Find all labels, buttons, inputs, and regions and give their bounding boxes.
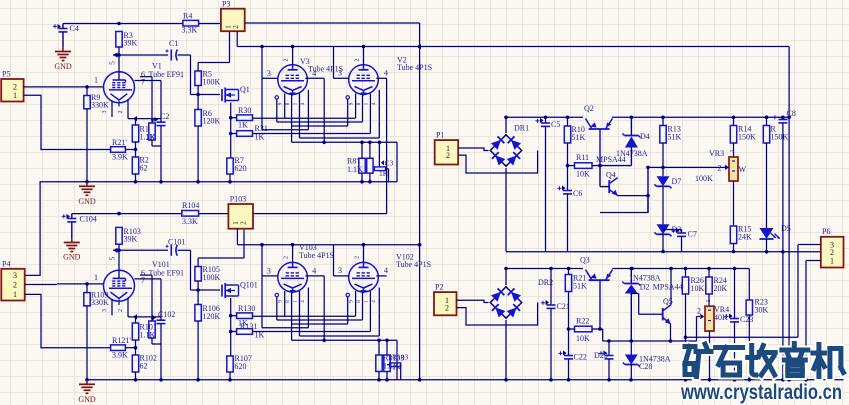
capacitor D23: [594, 339, 614, 380]
svg-text:C104: C104: [80, 215, 97, 224]
connector P3: [221, 0, 245, 31]
svg-text:C7: C7: [688, 230, 697, 239]
resistor R6: [195, 95, 221, 182]
wire screen rail bottom: [237, 229, 421, 247]
svg-text:5: 5: [109, 256, 117, 260]
svg-text:620: 620: [235, 362, 247, 371]
pot VR3: [695, 149, 747, 226]
svg-text:62: 62: [140, 362, 148, 371]
svg-text:9: 9: [349, 300, 355, 303]
resistor R101: [132, 317, 157, 348]
svg-text:4: 4: [384, 266, 388, 275]
svg-text:51K: 51K: [573, 282, 587, 291]
wire B+ bottom channel: [72, 212, 229, 216]
svg-text:3.9K: 3.9K: [112, 351, 128, 360]
svg-text:VR3: VR3: [709, 149, 724, 158]
capacitor C7: [663, 228, 697, 252]
capacitor C5: [536, 117, 561, 251]
svg-text:C4: C4: [70, 24, 79, 33]
capacitor C4: [53, 24, 79, 48]
svg-text:5: 5: [109, 61, 117, 65]
svg-text:Q2: Q2: [584, 104, 594, 113]
wire rail end bottom: [396, 340, 398, 380]
svg-text:R11: R11: [576, 153, 589, 162]
svg-text:C21: C21: [557, 302, 570, 311]
diode C28 zener: [623, 341, 671, 380]
svg-text:1K: 1K: [379, 169, 389, 178]
svg-text:Tube 4P1S: Tube 4P1S: [397, 63, 432, 72]
svg-text:DR1: DR1: [514, 124, 529, 133]
pot 2K and cap C2: [146, 112, 169, 182]
svg-text:1: 1: [730, 150, 736, 153]
resistor R130: [231, 304, 256, 328]
svg-text:9: 9: [349, 102, 355, 105]
svg-text:4: 4: [371, 300, 377, 303]
connector P1: [435, 131, 459, 165]
bridge DR2: [489, 269, 553, 380]
wire P6 pin1: [806, 261, 821, 380]
capacitor C23: [725, 269, 754, 380]
svg-text:R21': R21': [112, 138, 127, 147]
tube V101: [104, 250, 185, 301]
resistor R105: [195, 229, 244, 290]
svg-text:C8: C8: [787, 109, 796, 118]
svg-text:10K: 10K: [691, 284, 705, 293]
svg-text:R4: R4: [183, 12, 192, 21]
svg-text:P3: P3: [222, 0, 230, 9]
resistor R7: [227, 156, 247, 182]
svg-text:51K: 51K: [668, 133, 682, 142]
svg-text:20K: 20K: [714, 284, 728, 293]
resistor R22: [567, 317, 603, 344]
transistor Q4: [596, 155, 650, 213]
wire channel rail: [25, 180, 397, 275]
connector P103: [228, 195, 253, 229]
resistor R2: [132, 150, 149, 182]
svg-text:120K: 120K: [203, 312, 221, 321]
capacitor C1: [166, 39, 179, 61]
resistor R30: [231, 106, 253, 130]
svg-text:R104: R104: [182, 201, 199, 210]
svg-text:P5: P5: [2, 70, 10, 79]
svg-text:62: 62: [140, 164, 148, 173]
svg-text:1: 1: [293, 300, 299, 303]
wire R103 node: [109, 244, 169, 260]
resistor R121': [111, 336, 138, 360]
wire B+ top right: [420, 47, 791, 380]
svg-text:100K: 100K: [203, 78, 221, 87]
capacitor C8: [773, 109, 796, 380]
svg-text:3: 3: [338, 69, 342, 78]
capacitor C6: [558, 166, 583, 252]
svg-text:2: 2: [445, 303, 449, 312]
tube V3: [267, 47, 343, 96]
svg-text:8: 8: [356, 102, 362, 105]
tube V102 pins: [334, 245, 387, 336]
svg-text:150K: 150K: [738, 133, 756, 142]
svg-text:W: W: [739, 165, 747, 174]
svg-text:C22: C22: [574, 353, 587, 362]
svg-text:Tube 4P1S: Tube 4P1S: [396, 260, 431, 269]
svg-text:MPSA44: MPSA44: [653, 283, 683, 292]
resistor R3: [116, 31, 138, 48]
resistor R103: [116, 227, 141, 244]
wire rail end: [396, 142, 398, 182]
svg-text:51K: 51K: [572, 133, 586, 142]
svg-text:R30: R30: [238, 106, 251, 115]
capacitor C3: [374, 141, 393, 182]
svg-text:24K: 24K: [738, 233, 752, 242]
svg-text:2: 2: [446, 151, 450, 160]
svg-text:4: 4: [300, 300, 306, 303]
watermark CJK: [685, 344, 843, 377]
svg-text:R22: R22: [576, 317, 589, 326]
svg-text:R130: R130: [238, 304, 255, 313]
resistor R106: [195, 290, 221, 380]
svg-text:www.crystalradio.cn: www.crystalradio.cn: [680, 381, 842, 404]
resistor R15: [730, 225, 752, 254]
resistor R23: [746, 269, 768, 380]
svg-text:3: 3: [102, 309, 108, 312]
resistor R1: [132, 119, 155, 150]
ground: [78, 182, 96, 206]
svg-text:330K: 330K: [91, 101, 109, 110]
svg-text:3.3K: 3.3K: [182, 26, 198, 35]
svg-text:40K: 40K: [714, 313, 728, 322]
svg-text:1K: 1K: [238, 121, 248, 130]
diode D4 zener: [592, 116, 650, 166]
resistor R13: [660, 117, 682, 176]
wire Q1 drain chain: [229, 103, 233, 159]
svg-text:Tube EF91: Tube EF91: [149, 269, 185, 278]
wire P2 to bridge: [457, 300, 538, 325]
transistor Q2: [584, 104, 613, 166]
svg-text:1: 1: [830, 256, 834, 265]
resistor R8': [347, 142, 373, 182]
wire cathode bus: [253, 78, 398, 144]
resistor R11: [566, 153, 602, 179]
capacitor C104: [62, 214, 97, 238]
svg-text:P2: P2: [435, 283, 443, 292]
svg-text:7: 7: [141, 276, 145, 285]
ground: [63, 238, 81, 262]
svg-text:2: 2: [240, 221, 248, 225]
tube V3 pins: [262, 47, 324, 143]
resistor R10: [564, 117, 585, 165]
wire P1 to bridge: [458, 148, 537, 173]
transistor Q3: [580, 256, 613, 330]
resistor R8103: [376, 340, 405, 380]
wire P3 right B+ loop: [245, 23, 422, 380]
svg-text:C1: C1: [169, 39, 178, 48]
svg-text:C28: C28: [639, 362, 652, 371]
svg-text:Tube 4P1S: Tube 4P1S: [299, 251, 334, 260]
capacitor C21: [541, 269, 570, 380]
svg-text:2: 2: [697, 307, 701, 316]
watermark url: [680, 381, 842, 404]
svg-text:C3: C3: [385, 159, 394, 168]
svg-text:D4: D4: [640, 132, 650, 141]
svg-text:100K: 100K: [203, 273, 221, 282]
svg-text:Tube EF91: Tube EF91: [149, 70, 185, 79]
svg-text:8: 8: [285, 102, 291, 105]
tube V2: [338, 47, 432, 96]
capacitor C101: [166, 238, 186, 256]
wire Q101 drain chain: [229, 298, 233, 356]
svg-text:39K: 39K: [124, 39, 138, 48]
svg-text:P1: P1: [436, 131, 444, 140]
svg-text:9: 9: [278, 102, 284, 105]
svg-text:Q3: Q3: [580, 256, 590, 265]
svg-text:2: 2: [232, 25, 240, 29]
wire to P6 pin2: [766, 251, 768, 253]
svg-text:4: 4: [300, 102, 306, 105]
svg-text:R103: R103: [392, 353, 409, 362]
svg-text:D7: D7: [672, 177, 682, 186]
resistor R131: [231, 322, 265, 340]
wire C1 to R5 node: [178, 55, 221, 96]
pot VR4: [705, 300, 729, 380]
svg-text:3: 3: [267, 267, 271, 276]
svg-text:Q101: Q101: [240, 281, 258, 290]
svg-text:9: 9: [278, 300, 284, 303]
tube V2 pins: [334, 47, 387, 214]
svg-text:C101: C101: [168, 238, 185, 247]
svg-text:P103: P103: [230, 195, 246, 204]
wire lower adj: [603, 307, 705, 342]
wire supply minus rail: [506, 251, 821, 253]
svg-text:10K: 10K: [576, 170, 590, 179]
wire screen rail: [237, 31, 421, 49]
wire cathode bus bottom: [253, 276, 398, 342]
diode D5 LED: [760, 224, 791, 254]
wire bottom rail: [85, 378, 843, 382]
svg-text:R121': R121': [112, 336, 131, 345]
bridge DR1: [489, 117, 529, 251]
svg-text:3.3K: 3.3K: [182, 217, 198, 226]
tube V101 pins: [102, 275, 161, 319]
transistor Q101: [222, 281, 258, 299]
diode D3 zener: [655, 224, 682, 253]
svg-text:1: 1: [364, 102, 370, 105]
tube V1: [104, 55, 185, 103]
svg-text:8: 8: [356, 300, 362, 303]
wire P4 pin1 path: [25, 294, 111, 347]
resistor R26: [682, 269, 704, 380]
resistor R103b: [387, 353, 409, 380]
connector P2: [434, 283, 457, 316]
svg-text:GND: GND: [78, 197, 96, 206]
svg-text:30K: 30K: [755, 306, 769, 315]
svg-text:3: 3: [13, 271, 17, 280]
tube V103: [267, 243, 334, 293]
svg-text:3: 3: [267, 69, 271, 78]
svg-text:1: 1: [13, 91, 17, 100]
connector P4: [1, 260, 24, 301]
wire P5 pin1 path: [24, 95, 111, 149]
svg-text:3: 3: [338, 266, 342, 275]
tube V1 pins: [102, 77, 161, 122]
svg-text:330K: 330K: [91, 298, 109, 307]
svg-text:Q4: Q4: [606, 171, 616, 180]
svg-text:2: 2: [118, 309, 124, 312]
svg-text:4: 4: [384, 69, 388, 78]
svg-text:150K: 150K: [771, 133, 789, 142]
resistor R16: [763, 117, 788, 228]
pot 2K and cap C102: [149, 310, 176, 380]
svg-text:2: 2: [284, 59, 290, 62]
resistor R21': [111, 138, 138, 162]
svg-text:2: 2: [118, 111, 124, 114]
wire supply lower rail: [504, 267, 749, 271]
svg-text:GND: GND: [78, 395, 96, 404]
svg-text:1.1K: 1.1K: [347, 165, 363, 174]
resistor R31: [231, 124, 268, 142]
svg-text:3.9K: 3.9K: [112, 153, 128, 162]
svg-text:1: 1: [94, 76, 98, 85]
tube V103 pins: [262, 245, 324, 341]
capacitor C22: [559, 329, 587, 380]
svg-text:1: 1: [293, 102, 299, 105]
svg-text:C6: C6: [573, 189, 582, 198]
wire P6 pin3: [684, 245, 821, 340]
transistor Q5: [663, 267, 673, 343]
wire P4 pin2 to grid: [25, 273, 104, 286]
svg-text:100K: 100K: [695, 174, 713, 183]
wire C101 to R105 node: [178, 250, 221, 292]
ground: [54, 47, 72, 71]
svg-text:C5: C5: [551, 120, 560, 129]
svg-text:2: 2: [355, 59, 361, 62]
svg-text:620: 620: [235, 164, 247, 173]
svg-text:1: 1: [94, 273, 98, 282]
wire P5 pin2 to grid: [24, 76, 104, 89]
svg-text:39K: 39K: [124, 235, 138, 244]
resistor R21: [565, 269, 587, 330]
svg-text:4: 4: [312, 267, 316, 276]
svg-text:3: 3: [102, 111, 108, 114]
resistor R104: [182, 201, 200, 226]
wire vr3 wiper feed: [648, 166, 722, 170]
tube V102: [338, 245, 431, 294]
svg-text:GND: GND: [54, 62, 72, 71]
svg-text:4: 4: [371, 102, 377, 105]
svg-text:4: 4: [312, 69, 316, 78]
svg-text:Q1: Q1: [240, 85, 250, 94]
svg-text:10K: 10K: [576, 334, 590, 343]
svg-text:120K: 120K: [203, 117, 221, 126]
svg-text:P4: P4: [2, 260, 10, 269]
svg-text:MPSA44: MPSA44: [596, 155, 626, 164]
svg-text:2: 2: [355, 256, 361, 259]
svg-text:8: 8: [285, 300, 291, 303]
svg-text:7: 7: [141, 78, 145, 87]
svg-text:D2: D2: [640, 283, 650, 292]
svg-text:GND: GND: [63, 253, 81, 262]
resistor R109: [84, 284, 109, 380]
resistor R4: [182, 12, 199, 35]
svg-text:C23: C23: [740, 315, 753, 324]
svg-text:2: 2: [718, 164, 722, 173]
resistor R5: [195, 31, 230, 94]
transistor Q1: [222, 85, 250, 103]
node anode V1: [109, 52, 169, 64]
resistor R107: [227, 354, 252, 380]
diode D7 zener: [655, 176, 682, 224]
svg-text:2: 2: [284, 256, 290, 259]
connector P5: [1, 70, 23, 102]
svg-text:2K: 2K: [146, 133, 156, 142]
wire R3 to node: [117, 47, 121, 57]
resistor R102: [132, 348, 157, 380]
svg-text:2: 2: [13, 280, 17, 289]
wire supply top rail: [504, 116, 789, 120]
svg-text:P6: P6: [822, 227, 830, 236]
resistor R24: [706, 269, 728, 307]
ground: [78, 380, 96, 404]
resistor R14: [730, 117, 756, 157]
svg-text:1: 1: [13, 290, 17, 299]
diode D2 zener: [622, 267, 682, 343]
svg-text:1: 1: [706, 300, 712, 303]
svg-text:1: 1: [364, 300, 370, 303]
resistor R9: [84, 87, 109, 182]
connector P6: [821, 227, 844, 268]
svg-text:1N4738A: 1N4738A: [629, 274, 661, 283]
wire P103 out: [253, 213, 387, 215]
wire B+ top rail left: [63, 22, 221, 26]
